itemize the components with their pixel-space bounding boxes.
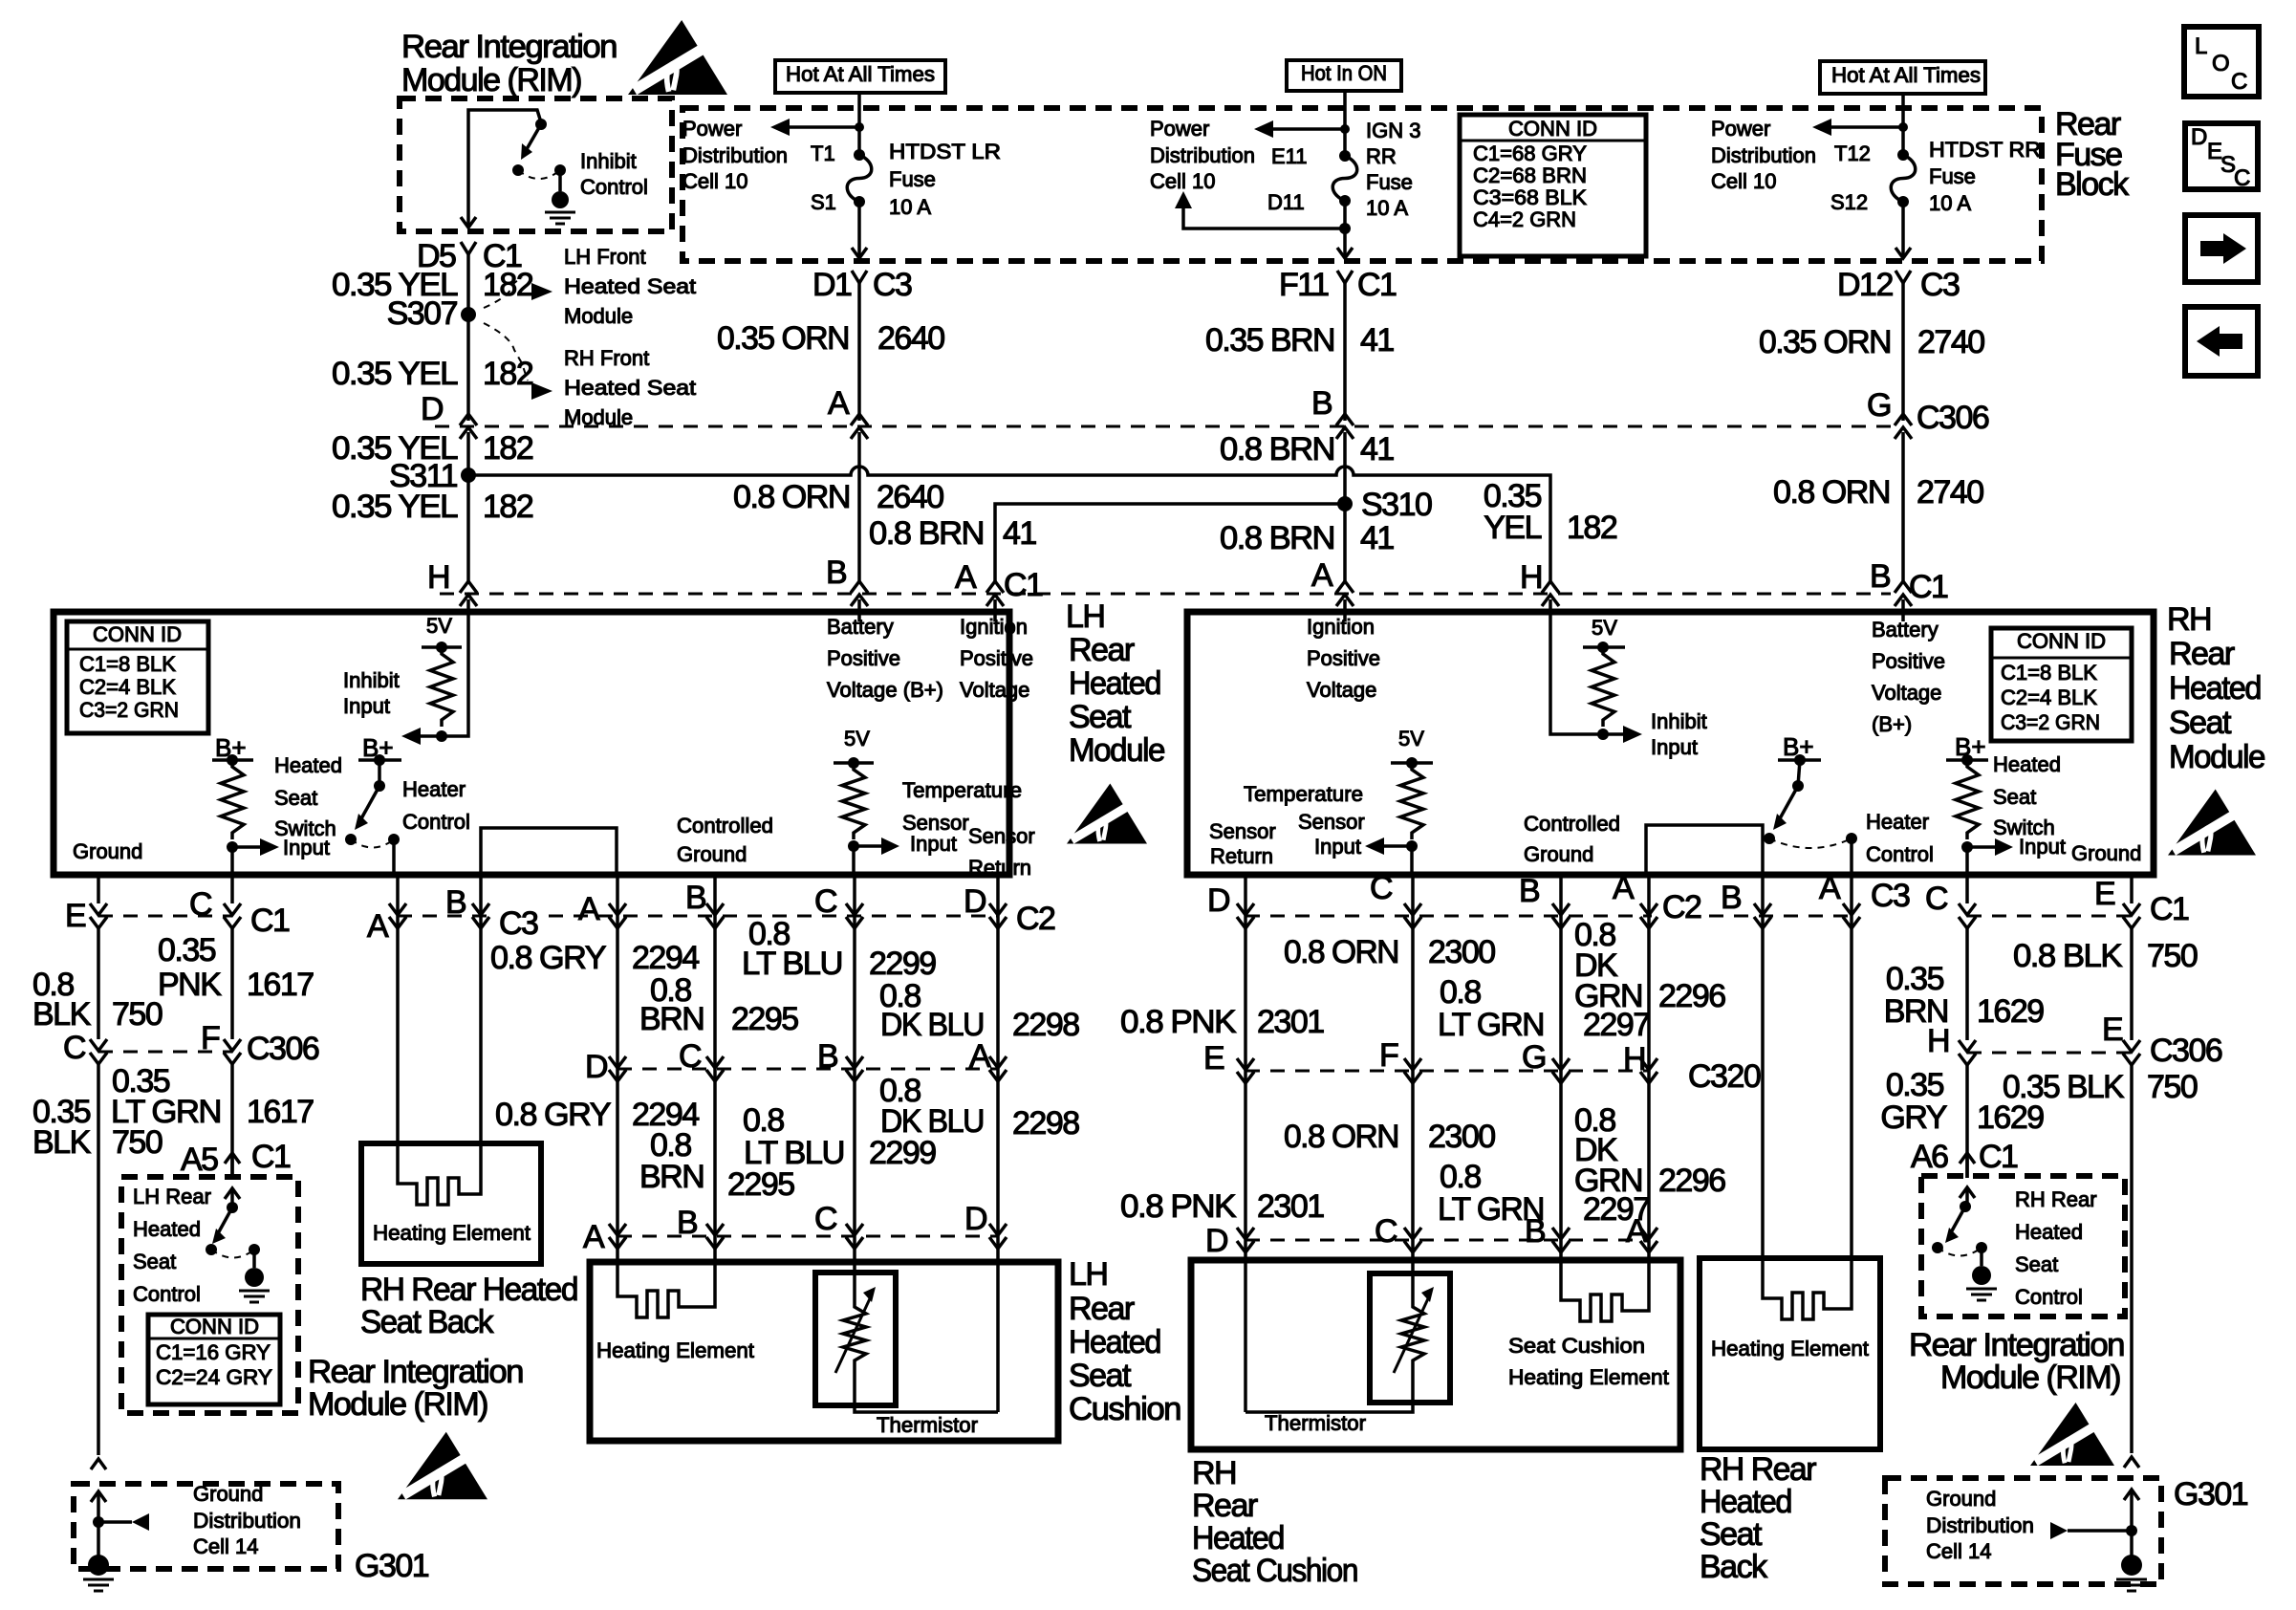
svg-text:Cell 10: Cell 10 <box>682 169 747 193</box>
svg-text:Cell 14: Cell 14 <box>1926 1539 1991 1563</box>
node fuse2 branch <box>1339 223 1351 234</box>
svg-text:C2: C2 <box>1662 889 1701 925</box>
wire heater control to pin A LH <box>392 839 396 872</box>
svg-text:Ground: Ground <box>1926 1487 1996 1511</box>
svg-text:Seat: Seat <box>274 786 317 810</box>
svg-text:0.35: 0.35 <box>158 932 216 968</box>
legend box DESC <box>2185 123 2258 189</box>
box CONN ID LH module <box>67 621 208 733</box>
wire dashed branch RH front <box>484 323 528 381</box>
wire LH heater control A to element <box>396 875 400 1143</box>
svg-text:Hot At All Times: Hot At All Times <box>786 62 935 86</box>
wire H pin to inhibit junction LH <box>421 616 468 736</box>
svg-text:Fuse: Fuse <box>889 167 936 191</box>
wire 0.35 PNK 1617 <box>230 928 234 1039</box>
svg-text:0.8 GRY: 0.8 GRY <box>490 940 606 976</box>
node inhibit junction RH <box>1597 729 1609 740</box>
svg-text:Heater: Heater <box>402 777 466 801</box>
svg-text:GRN: GRN <box>1574 978 1642 1014</box>
svg-text:41: 41 <box>1360 322 1394 359</box>
arrow power distribution left fuse3 <box>1831 125 1903 129</box>
svg-text:RH Rear Heated: RH Rear Heated <box>360 1272 577 1308</box>
svg-text:B: B <box>1721 880 1741 916</box>
wire 0.35 LT GRN 1617 <box>230 1064 234 1178</box>
svg-text:C2=4 BLK: C2=4 BLK <box>79 675 176 699</box>
module RH Rear Heated Seat Control RIM dashed box <box>1921 1176 2125 1316</box>
svg-text:Back: Back <box>1700 1549 1768 1585</box>
svg-text:LT BLU: LT BLU <box>742 946 842 982</box>
resistor heated seat switch RH <box>1956 760 1979 839</box>
svg-text:CONN ID: CONN ID <box>93 622 182 646</box>
node fuse1 top junction <box>855 122 864 132</box>
wire RH cushion D column return <box>1244 875 1247 1240</box>
svg-text:5V: 5V <box>426 614 452 638</box>
ESD symbol top-left <box>628 20 727 95</box>
svg-text:C306: C306 <box>2150 1033 2222 1069</box>
svg-text:GRN: GRN <box>1574 1163 1642 1199</box>
svg-text:D12: D12 <box>1837 267 1893 303</box>
svg-text:C: C <box>1925 881 1948 917</box>
svg-text:A: A <box>578 891 600 927</box>
svg-text:Heated: Heated <box>1700 1484 1791 1520</box>
svg-text:LH Front: LH Front <box>564 245 646 269</box>
wire 0.35 BRN 41 <box>1343 299 1347 421</box>
wire 0.35 YEL below C306 <box>466 432 470 582</box>
wire 0.35 BLK 750 <box>97 1064 100 1455</box>
svg-text:2295: 2295 <box>731 1001 798 1037</box>
connector row C306 left dashed <box>98 1051 232 1054</box>
module RH Rear Heated Seat Module box <box>1187 612 2154 875</box>
svg-text:0.35 YEL: 0.35 YEL <box>332 489 458 525</box>
wire LH controlled ground B to element <box>479 875 483 1143</box>
wire 0.35 BLK 750 RH <box>2130 1065 2134 1453</box>
svg-text:Rear: Rear <box>1192 1488 1258 1524</box>
svg-text:2296: 2296 <box>1658 978 1725 1014</box>
svg-text:A: A <box>1311 557 1333 594</box>
wire A pin into module LH <box>993 616 997 621</box>
svg-text:2301: 2301 <box>1257 1004 1324 1040</box>
connector row C306 dashed line <box>435 425 1891 428</box>
svg-text:C: C <box>2231 69 2247 95</box>
svg-text:B: B <box>677 1205 697 1241</box>
svg-text:D: D <box>1207 882 1229 919</box>
svg-text:Heated: Heated <box>1069 1324 1160 1360</box>
svg-text:5V: 5V <box>844 727 870 751</box>
svg-text:Input: Input <box>1314 835 1361 859</box>
svg-text:Heated: Heated <box>274 753 342 777</box>
svg-text:E: E <box>1203 1040 1224 1077</box>
connector row C3/C2 LH dashed <box>398 915 489 918</box>
svg-text:C1=16 GRY: C1=16 GRY <box>156 1340 271 1364</box>
svg-text:E: E <box>65 898 86 934</box>
svg-text:C1: C1 <box>1979 1139 2018 1175</box>
wire RIM internal <box>468 110 541 228</box>
module LH Rear Heated Seat Control RIM dashed box <box>121 1177 298 1413</box>
box controlled ground loop LH <box>481 828 617 872</box>
svg-text:2740: 2740 <box>1917 474 1983 511</box>
fuse F1 HTDST LR 10A <box>854 149 865 161</box>
svg-text:2640: 2640 <box>877 320 944 357</box>
svg-text:HTDST RR: HTDST RR <box>1929 138 2041 162</box>
wire dashed arc LH seat control <box>211 1250 254 1258</box>
rail B+ heater control RH <box>1778 758 1821 762</box>
wire into G301 RH <box>2124 1490 2139 1500</box>
svg-text:Control: Control <box>2015 1285 2083 1309</box>
svg-text:D: D <box>421 391 443 427</box>
svg-text:Seat: Seat <box>2015 1252 2058 1276</box>
svg-text:Voltage: Voltage <box>1872 681 1941 705</box>
svg-text:B: B <box>1311 385 1332 422</box>
svg-text:182: 182 <box>483 267 533 303</box>
svg-text:Heater: Heater <box>1866 810 1929 834</box>
arrow fuse2 out <box>1337 248 1353 258</box>
svg-text:F: F <box>1379 1037 1398 1074</box>
svg-text:Input: Input <box>2019 835 2066 859</box>
wire LH switch pin C <box>230 875 234 903</box>
svg-text:C: C <box>1370 870 1393 906</box>
svg-text:Heated Seat: Heated Seat <box>564 376 696 400</box>
ground G301 RH <box>2121 1555 2142 1576</box>
svg-text:5V: 5V <box>1592 616 1617 640</box>
svg-text:Rear Integration: Rear Integration <box>308 1354 523 1390</box>
svg-text:0.35: 0.35 <box>1886 961 1944 997</box>
svg-text:0.35 BRN: 0.35 BRN <box>1205 322 1334 359</box>
svg-text:O: O <box>2212 51 2230 76</box>
node switch resistor bottom LH <box>227 841 238 853</box>
svg-text:BLK: BLK <box>32 996 92 1033</box>
svg-text:E11: E11 <box>1271 144 1308 168</box>
svg-text:D: D <box>964 1201 986 1237</box>
svg-text:Controlled: Controlled <box>677 814 773 838</box>
svg-text:C3: C3 <box>1920 267 1960 303</box>
wire dashed branch LH front <box>484 277 522 308</box>
svg-text:CONN ID: CONN ID <box>2017 629 2106 653</box>
svg-text:Seat: Seat <box>133 1250 176 1273</box>
svg-text:5V: 5V <box>1398 727 1424 751</box>
heating element RH rear seat back <box>398 1143 481 1205</box>
arrow to LH Front Heated Seat Module <box>531 283 552 300</box>
wire RH ground pin E <box>2130 875 2134 903</box>
svg-text:C3=2 GRN: C3=2 GRN <box>2001 710 2100 734</box>
svg-text:182: 182 <box>483 356 533 392</box>
svg-text:G301: G301 <box>2174 1476 2248 1512</box>
svg-text:Heating Element: Heating Element <box>1711 1337 1869 1360</box>
svg-text:0.8 BRN: 0.8 BRN <box>869 515 984 552</box>
svg-text:B: B <box>826 555 846 591</box>
box thermistor RH <box>1370 1273 1450 1403</box>
svg-text:Positive: Positive <box>1872 649 1945 673</box>
svg-text:Heating Element: Heating Element <box>1508 1365 1669 1389</box>
svg-text:RH Rear: RH Rear <box>1700 1451 1816 1488</box>
wire RH switch pin C <box>1965 875 1969 903</box>
wire RH back element B column <box>1761 875 1765 1258</box>
wire RH cushion C column temp <box>1411 875 1415 1300</box>
svg-text:F11: F11 <box>1279 267 1329 303</box>
node switch resistor bottom RH <box>1961 841 1973 853</box>
rail B+ switch LH <box>212 758 253 762</box>
wire into LH module A pin <box>993 599 997 616</box>
svg-text:2301: 2301 <box>1257 1188 1324 1225</box>
svg-text:Seat: Seat <box>1700 1516 1763 1553</box>
svg-text:D1: D1 <box>812 267 852 303</box>
svg-text:Input: Input <box>1651 735 1698 759</box>
svg-text:D: D <box>964 883 986 920</box>
svg-text:2298: 2298 <box>1012 1007 1079 1043</box>
svg-text:0.8: 0.8 <box>1440 1159 1481 1195</box>
wire LH cushion C column temp <box>853 875 856 1300</box>
arrow power distribution left fuse2 <box>1273 127 1345 131</box>
rail 5V inhibit LH <box>422 645 462 649</box>
svg-text:Inhibit: Inhibit <box>343 668 400 692</box>
svg-text:C1: C1 <box>251 1139 291 1175</box>
wire LH cushion D column return <box>996 875 1000 1236</box>
svg-text:BRN: BRN <box>639 1001 704 1037</box>
arrow temperature sensor input RH <box>1384 844 1412 848</box>
svg-text:Module (RIM): Module (RIM) <box>1940 1360 2120 1396</box>
svg-text:Heated Seat: Heated Seat <box>564 274 696 298</box>
svg-text:GRY: GRY <box>1880 1099 1946 1136</box>
arrow fuse1 out <box>852 248 867 258</box>
svg-text:0.8: 0.8 <box>743 1102 784 1139</box>
node G301 LH junction <box>93 1516 104 1528</box>
svg-text:Thermistor: Thermistor <box>877 1413 978 1437</box>
svg-text:C: C <box>63 1030 86 1066</box>
svg-text:Sensor: Sensor <box>1298 810 1365 834</box>
svg-text:0.35 ORN: 0.35 ORN <box>1759 324 1891 360</box>
wire 0.8 BLK 750 <box>97 928 100 1039</box>
rail B+ heater control LH <box>358 758 401 762</box>
svg-text:182: 182 <box>483 489 533 525</box>
svg-text:B: B <box>817 1038 837 1075</box>
arrow into G301 LH <box>91 1459 106 1469</box>
svg-text:C2=24 GRY: C2=24 GRY <box>156 1365 272 1389</box>
svg-text:LT GRN: LT GRN <box>1438 1007 1544 1043</box>
node heater control contact RH <box>1764 833 1775 844</box>
svg-text:RR: RR <box>1366 144 1397 168</box>
svg-text:Ground: Ground <box>73 839 142 863</box>
ground RH seat control <box>1980 1248 1983 1266</box>
svg-text:Seat Back: Seat Back <box>360 1304 494 1340</box>
wire fuse1 feed <box>857 93 861 155</box>
svg-text:Seat: Seat <box>1993 785 2036 809</box>
wire fuse2 feed <box>1343 91 1347 156</box>
svg-text:C3: C3 <box>1871 878 1910 914</box>
wire 0.8 BRN 41 upper <box>1343 432 1347 582</box>
node switch top <box>535 119 547 130</box>
svg-text:Heated: Heated <box>1192 1520 1284 1556</box>
svg-text:Distribution: Distribution <box>193 1509 301 1533</box>
heating element RH back <box>1763 1258 1852 1319</box>
svg-text:10 A: 10 A <box>889 195 931 219</box>
svg-text:Heated: Heated <box>2015 1220 2083 1244</box>
switch heater control RH <box>1798 760 1800 786</box>
svg-text:C2=68 BRN: C2=68 BRN <box>1473 163 1587 187</box>
wire 0.35 ORN 2640 <box>857 299 861 421</box>
heating element LH cushion <box>617 1262 715 1317</box>
wire thermistor to D LH <box>855 1367 998 1412</box>
ground G301 LH <box>88 1555 109 1576</box>
wire heater control to pin A RH <box>1850 838 1853 872</box>
svg-text:C3: C3 <box>873 267 912 303</box>
svg-text:2296: 2296 <box>1658 1163 1725 1199</box>
svg-text:Control: Control <box>1866 842 1934 866</box>
module G301 RH dashed box <box>1885 1478 2161 1584</box>
svg-text:RH: RH <box>1192 1455 1236 1491</box>
svg-text:41: 41 <box>1003 515 1036 552</box>
svg-text:Power: Power <box>682 117 742 141</box>
svg-text:Positive: Positive <box>827 646 900 670</box>
switch heater control LH <box>378 760 381 786</box>
svg-text:Positive: Positive <box>1307 646 1380 670</box>
svg-text:Seat: Seat <box>1069 1358 1132 1394</box>
box CONN ID RH module <box>1991 628 2132 741</box>
svg-text:H: H <box>1927 1023 1949 1059</box>
svg-text:2295: 2295 <box>727 1166 794 1203</box>
svg-text:E: E <box>2102 1012 2123 1048</box>
svg-text:RH Front: RH Front <box>564 346 649 370</box>
svg-text:Voltage (B+): Voltage (B+) <box>827 678 943 702</box>
rail B+ switch RH <box>1946 758 1988 762</box>
svg-text:L: L <box>2195 33 2207 59</box>
arrow fuse3 out <box>1895 248 1911 258</box>
connector row C306 middle dashed <box>617 1068 998 1071</box>
node fuse2 top junction <box>1340 124 1350 134</box>
svg-text:Power: Power <box>1711 117 1770 141</box>
svg-text:DK BLU: DK BLU <box>880 1007 984 1043</box>
svg-text:0.35 YEL: 0.35 YEL <box>332 356 458 392</box>
svg-text:Block: Block <box>2055 166 2130 203</box>
svg-text:A6: A6 <box>1911 1139 1948 1175</box>
module Rear Fuse Block dashed box <box>682 108 2042 261</box>
svg-text:Ground: Ground <box>193 1482 263 1506</box>
svg-text:Inhibit: Inhibit <box>580 149 637 173</box>
wire LH ground pin E <box>97 875 100 903</box>
svg-text:0.8 PNK: 0.8 PNK <box>1120 1004 1237 1040</box>
svg-text:B: B <box>685 880 705 916</box>
node switch contact right <box>554 164 566 176</box>
wire RH back element A column <box>1850 875 1853 1258</box>
svg-text:S310: S310 <box>1361 487 1432 523</box>
splice S311 <box>461 468 476 483</box>
wire switch resistor to pin C RH <box>1965 847 1969 872</box>
svg-text:1629: 1629 <box>1977 993 2044 1030</box>
svg-text:C3=68 BLK: C3=68 BLK <box>1473 185 1587 209</box>
svg-text:G: G <box>1867 387 1891 424</box>
svg-text:Module (RIM): Module (RIM) <box>401 62 581 98</box>
svg-text:Heating Element: Heating Element <box>596 1338 754 1362</box>
svg-text:B: B <box>1519 873 1539 909</box>
header box Hot At All Times right <box>1820 61 1985 94</box>
svg-text:Input: Input <box>283 836 330 859</box>
module RH Rear Heated Seat Cushion box <box>1191 1260 1680 1449</box>
node fuse3 top junction <box>1898 122 1908 132</box>
svg-text:182: 182 <box>1567 510 1617 546</box>
svg-text:Hot In ON: Hot In ON <box>1301 61 1387 85</box>
svg-text:HTDST LR: HTDST LR <box>889 140 1001 163</box>
svg-text:Heating Element: Heating Element <box>373 1221 531 1245</box>
node temp sensor junction LH <box>848 840 859 852</box>
svg-text:C1=68 GRY: C1=68 GRY <box>1473 141 1587 165</box>
svg-text:Rear: Rear <box>1069 632 1135 668</box>
svg-text:S1: S1 <box>811 190 836 214</box>
node G301 RH junction <box>2126 1525 2137 1536</box>
resistor inhibit pull-up LH <box>430 647 453 727</box>
module LH Rear Heated Seat Cushion box <box>590 1262 1058 1441</box>
svg-text:C: C <box>814 1201 837 1237</box>
svg-text:Ignition: Ignition <box>1307 615 1375 639</box>
svg-text:0.8: 0.8 <box>1440 974 1481 1011</box>
svg-text:A: A <box>367 908 389 945</box>
svg-text:2294: 2294 <box>632 940 699 976</box>
svg-text:C306: C306 <box>247 1031 319 1067</box>
switch Inhibit Control arm <box>527 124 541 149</box>
svg-text:Cell 14: Cell 14 <box>193 1534 258 1558</box>
svg-text:LT GRN: LT GRN <box>111 1094 221 1130</box>
svg-text:Distribution: Distribution <box>1711 143 1816 167</box>
svg-text:10 A: 10 A <box>1929 191 1971 215</box>
legend box arrow left <box>2185 307 2258 376</box>
fuse F3 HTDST RR 10A <box>1897 149 1909 161</box>
svg-text:C3=2 GRN: C3=2 GRN <box>79 698 179 722</box>
svg-text:Rear: Rear <box>1069 1291 1135 1327</box>
svg-text:(B+): (B+) <box>1872 712 1912 736</box>
arrow RIM wire down <box>461 217 476 228</box>
switch RH rear heated seat control <box>1960 1187 1975 1198</box>
svg-text:C1: C1 <box>2150 891 2189 927</box>
resistor inhibit pull-up RH <box>1592 647 1614 727</box>
switch LH rear heated seat control <box>225 1188 240 1199</box>
svg-text:0.8 BRN: 0.8 BRN <box>1220 431 1334 468</box>
svg-text:A: A <box>828 385 850 422</box>
wire 0.8 ORN 2740 <box>1901 432 1905 582</box>
wire into RH module A pin <box>1343 599 1347 616</box>
svg-text:A: A <box>583 1219 605 1255</box>
svg-text:CONN ID: CONN ID <box>1508 117 1597 141</box>
wire RH cushion A column <box>1647 875 1651 1260</box>
legend box arrow right <box>2185 215 2258 282</box>
wire temp sensor to pin C LH <box>852 846 856 872</box>
svg-text:Rear: Rear <box>2169 636 2235 672</box>
svg-text:0.8 GRY: 0.8 GRY <box>495 1097 611 1133</box>
arrow power distribution left fuse1 <box>790 125 859 129</box>
arrow inhibit input RH <box>1623 726 1642 743</box>
wire thermistor to D RH <box>1245 1367 1413 1412</box>
wire into RH module B pin <box>1901 599 1905 616</box>
ground inhibit control <box>558 170 562 191</box>
wire dashed arc inhibit switch <box>518 170 560 179</box>
rail 5V inhibit RH <box>1583 645 1625 649</box>
node temp sensor junction RH <box>1406 840 1418 852</box>
svg-text:Inhibit: Inhibit <box>1651 709 1707 733</box>
arrow up power distribution fuse2 <box>1175 191 1192 208</box>
svg-text:Controlled: Controlled <box>1524 812 1620 836</box>
svg-text:BLK: BLK <box>32 1124 92 1161</box>
svg-text:Return: Return <box>968 856 1031 880</box>
svg-text:Module: Module <box>564 304 633 328</box>
svg-text:C: C <box>189 886 212 923</box>
svg-text:A: A <box>955 559 977 596</box>
svg-text:Positive: Positive <box>960 646 1033 670</box>
svg-text:A: A <box>969 1038 991 1075</box>
svg-text:C: C <box>1375 1213 1397 1250</box>
node heater control output LH <box>388 834 400 845</box>
node RH seat control right <box>1976 1242 1987 1253</box>
svg-text:B: B <box>445 884 466 921</box>
arrow into G301 RH <box>2124 1457 2139 1468</box>
wire B pin into module LH <box>857 616 861 621</box>
svg-text:0.8 BLK: 0.8 BLK <box>2013 938 2123 974</box>
svg-text:S12: S12 <box>1830 190 1868 214</box>
